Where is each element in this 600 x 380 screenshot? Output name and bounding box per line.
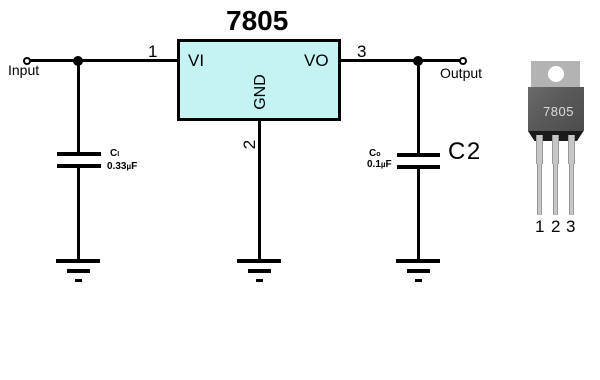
package TO-220 bottom edge	[528, 131, 584, 141]
package TO-220 mounting hole	[548, 66, 564, 82]
wire output cap lower	[417, 169, 420, 259]
label C1	[110, 149, 119, 159]
value 0.1uF	[367, 160, 392, 170]
pin label 3	[357, 43, 366, 60]
label 7805 (title)	[226, 7, 288, 35]
node input junction	[73, 56, 83, 66]
pin name VO	[304, 52, 329, 69]
wire output cap upper	[417, 61, 420, 153]
wire input cap lower	[77, 168, 80, 259]
label Output	[440, 66, 482, 80]
package pin number 2	[551, 218, 560, 235]
wire gnd pin	[258, 121, 261, 259]
pin label 1	[148, 43, 157, 60]
ground (input side)	[0, 0, 1, 1]
wire input horizontal	[28, 59, 178, 62]
package pin number 3	[566, 218, 575, 235]
node output junction	[413, 56, 423, 66]
package TO-220 body	[528, 87, 584, 131]
capacitor C2 0.1uF	[0, 0, 1, 1]
label Input	[8, 63, 39, 77]
ground (output side)	[0, 0, 1, 1]
label C2	[448, 140, 482, 164]
ground (gnd pin)	[0, 0, 1, 1]
package lead 1	[0, 0, 1, 1]
package TO-220 mounting tab	[531, 61, 580, 88]
label Co	[369, 149, 381, 159]
terminal Input (open circle)	[23, 57, 31, 65]
pin name GND (rotated)	[253, 72, 269, 112]
pin label 2 (rotated)	[241, 138, 258, 151]
wire input cap upper	[77, 61, 80, 152]
pin name VI	[188, 52, 204, 69]
package pin number 1	[535, 218, 544, 235]
package lead 3	[0, 0, 1, 1]
wire output horizontal	[340, 59, 460, 62]
value 0.33uF	[107, 162, 137, 172]
package body label 7805	[543, 105, 574, 118]
regulator U1 7805 body	[177, 39, 341, 121]
package lead 2	[0, 0, 1, 1]
terminal Output (open circle)	[459, 57, 467, 65]
capacitor C1 0.33uF	[0, 0, 1, 1]
